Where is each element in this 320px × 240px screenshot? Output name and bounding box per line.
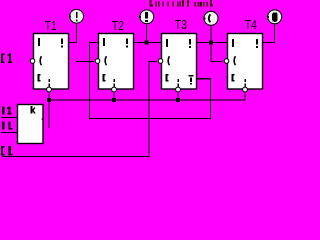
bottom bubble of T1 (47, 87, 52, 92)
pins of T1: input mark, clock mark, set mark, Q mark, bottom dashes (38, 38, 64, 87)
flip-flop T3 body (162, 34, 197, 90)
svg-text:T2: T2 (112, 19, 124, 33)
node junction bus at T2 bottom (112, 98, 116, 102)
label CL at bottom clock line (1, 146, 13, 156)
pulse source right stub pin (42, 119, 44, 120)
lamp HL1 (69, 9, 84, 23)
pins of T3 including inverted output mark (166, 39, 194, 87)
clock bubble of T3 (158, 59, 163, 64)
wire Q3 to T4 input with lamp HL3 stem and T4 clock feed (197, 25, 228, 62)
svg-text:T1: T1 (45, 19, 57, 33)
wire reset bus R (49, 99, 245, 101)
clock bubble of T2 (95, 59, 100, 64)
clock bubble of T4 (224, 59, 229, 64)
wire Q4 to lamp HL4 stem (263, 23, 275, 42)
pins of T2 (103, 38, 129, 87)
wire Q1 to lamp HL1 stem (68, 23, 77, 43)
node junction bus at T3 bottom (176, 98, 180, 102)
lamp HL2 (139, 10, 154, 24)
node junction bus at T1 bottom (47, 98, 51, 102)
flip-flop T2 body (99, 34, 134, 90)
lamp HL3 (203, 11, 218, 25)
wire input I1 to pulse source (1, 117, 18, 119)
label C1 at T1 clock (1, 54, 12, 64)
label T4 (245, 18, 257, 32)
wire input I2 to pulse source (1, 132, 18, 134)
wire to clock of T2 (76, 61, 94, 63)
clock bubble of T1 (30, 59, 35, 64)
flip-flop T1 body (34, 34, 69, 90)
wire Q2 to T3 input with lamp HL2 stem (133, 23, 162, 43)
bottom bubble of T4 (243, 87, 248, 92)
label I1 (2, 107, 12, 115)
label I2 (2, 122, 12, 130)
svg-text:T3: T3 (175, 18, 187, 32)
wire T3 bottom pin (177, 92, 179, 100)
bottom bubble of T3 (176, 87, 181, 92)
wire T4 bottom pin (244, 92, 246, 100)
bottom bubble of T2 (112, 87, 117, 92)
node junction at lamp HL2 tap (145, 41, 149, 45)
label T3 (175, 18, 187, 32)
label T2 (112, 19, 124, 33)
node junction at lamp HL3 tap (209, 41, 213, 45)
label k inside pulse source (31, 106, 36, 114)
svg-text:T4: T4 (245, 18, 257, 32)
pulse source K body (18, 105, 44, 144)
pins of T4 (232, 39, 259, 87)
flip-flop T4 body (228, 34, 263, 90)
wire clock bus vertical to T3 clock and bottom clock line CL (2, 62, 157, 157)
wire net Q3bar to T2 input (90, 43, 211, 119)
red caption text (clipped at top) (149, 0, 213, 7)
wire T1 bottom pin hanging (48, 92, 50, 128)
label T1 (45, 19, 57, 33)
wire T2 bottom pin (113, 92, 115, 100)
lamp HL4 (267, 10, 282, 24)
